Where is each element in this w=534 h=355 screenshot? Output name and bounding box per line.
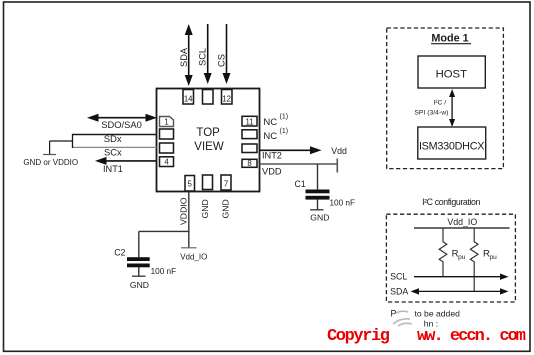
svg-text:NC: NC [263, 117, 277, 128]
svg-text:7: 7 [224, 180, 228, 189]
svg-text:SDO/SA0: SDO/SA0 [101, 119, 142, 130]
svg-text:GND or VDDIO: GND or VDDIO [23, 158, 78, 167]
svg-text:Copyrig: Copyrig [327, 327, 390, 346]
svg-text:VIEW: VIEW [194, 141, 224, 153]
svg-text:4: 4 [164, 158, 169, 167]
svg-text:NC: NC [263, 131, 277, 142]
svg-text:ww. eccn. com: ww. eccn. com [417, 327, 526, 346]
svg-text:pu: pu [458, 254, 466, 261]
svg-text:INT1: INT1 [103, 164, 123, 174]
svg-text:Mode 1: Mode 1 [431, 33, 468, 45]
svg-text:VDDIO: VDDIO [178, 197, 188, 225]
svg-text:SCx: SCx [104, 147, 122, 158]
svg-text:I²C /: I²C / [433, 100, 446, 107]
svg-text:5: 5 [188, 180, 193, 189]
svg-text:SDA: SDA [179, 47, 189, 67]
svg-text:GND: GND [200, 199, 210, 218]
svg-text:SDA: SDA [390, 287, 408, 297]
svg-text:P: P [391, 309, 397, 319]
svg-text:Vdd_IO: Vdd_IO [180, 252, 207, 261]
svg-text:TOP: TOP [196, 127, 220, 139]
svg-text:100 nF: 100 nF [151, 267, 177, 276]
svg-text:ISM330DHCX: ISM330DHCX [419, 140, 485, 152]
svg-text:11: 11 [245, 117, 253, 126]
svg-text:1: 1 [164, 118, 168, 127]
svg-text:14: 14 [184, 95, 193, 104]
svg-text:INT2: INT2 [262, 151, 282, 161]
svg-text:C1: C1 [295, 179, 306, 189]
svg-text:Vdd: Vdd [331, 146, 347, 156]
svg-text:SCL: SCL [198, 48, 208, 66]
svg-text:CS: CS [216, 54, 226, 67]
svg-text:I²C configuration: I²C configuration [422, 197, 480, 207]
svg-text:SDx: SDx [104, 134, 122, 145]
svg-text:GND: GND [221, 199, 231, 218]
svg-text:Vdd_IO: Vdd_IO [447, 217, 477, 227]
svg-text:12: 12 [222, 95, 231, 104]
svg-text:GND: GND [310, 212, 329, 222]
svg-text:100 nF: 100 nF [330, 198, 356, 207]
svg-text:VDD: VDD [262, 166, 282, 176]
svg-text:(1): (1) [280, 128, 289, 135]
svg-text:(1): (1) [280, 113, 289, 120]
svg-text:8: 8 [247, 159, 251, 168]
svg-text:pu: pu [490, 254, 498, 261]
svg-text:to be added: to be added [415, 309, 461, 319]
svg-text:HOST: HOST [436, 68, 467, 80]
svg-text:GND: GND [130, 280, 149, 290]
svg-text:SCL: SCL [390, 272, 407, 282]
svg-text:C2: C2 [114, 247, 125, 257]
svg-text:SPI (3/4-w): SPI (3/4-w) [414, 109, 448, 116]
